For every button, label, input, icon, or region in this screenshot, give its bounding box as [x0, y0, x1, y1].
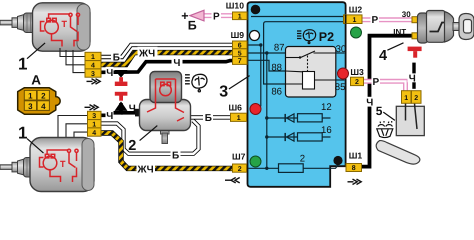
harness arrow M2: [85, 105, 99, 110]
switch 5 pin 1: [402, 91, 412, 104]
label P on pink wire to ignition: [371, 15, 380, 26]
svg-text:2: 2: [41, 92, 46, 101]
svg-text:Ш7: Ш7: [232, 151, 246, 161]
svg-text:Ч: Ч: [106, 111, 113, 122]
svg-text:Р2: Р2: [319, 30, 334, 44]
label P on pink wire to switch5: [372, 77, 381, 88]
motor M1 red schematic: [41, 13, 80, 46]
socket marker white Sh9: [250, 31, 260, 41]
wire vertical to diodes and fuse row: [266, 53, 268, 168]
red connector pair left: [115, 77, 128, 101]
wire white B motor2 pin1 to pump lower: [101, 121, 199, 154]
stalk lever of switch 5: [376, 141, 420, 165]
svg-text:ЖЧ: ЖЧ: [137, 164, 154, 175]
motor M1 top: body: [33, 3, 91, 51]
svg-text:Ч: Ч: [129, 104, 136, 115]
svg-text:12: 12: [321, 102, 332, 113]
label Ch on top black wire: [172, 56, 183, 69]
wire ZhCh striped top run motor1 pin4 to Sh9-5: [101, 53, 233, 65]
relay contact: [286, 57, 301, 59]
svg-text:30: 30: [402, 10, 411, 19]
pin M1-3: [85, 69, 101, 78]
mounting block 3 body: [248, 2, 346, 187]
wire Ch black top run motor1 pin3 to Sh9-7: [101, 61, 233, 73]
pump terminal lug: [135, 109, 140, 117]
svg-text:4: 4: [92, 130, 96, 137]
pin Sh6-1: [231, 113, 247, 122]
svg-text:Ш6: Ш6: [229, 102, 243, 112]
junction wedge upper: [115, 70, 128, 78]
harness arrow Sh1: [348, 179, 362, 184]
svg-text:4: 4: [41, 102, 46, 111]
pin M1-4: [85, 61, 101, 70]
pin M2-4: [88, 128, 102, 137]
svg-text:85: 85: [335, 82, 346, 93]
svg-text:Ч: Ч: [106, 68, 113, 79]
diode branch 16: [265, 135, 268, 138]
svg-text:5: 5: [376, 104, 383, 118]
red T connector ignition: [408, 47, 422, 58]
svg-text:3: 3: [91, 71, 95, 78]
motor M2 bottom: lead wires to connector: [58, 116, 88, 144]
label ZhCh on top striped wire: [138, 47, 158, 60]
svg-text:Б: Б: [113, 52, 120, 63]
ignition switch 4: terminal 30: [412, 17, 419, 23]
svg-text:Ш1: Ш1: [349, 151, 363, 161]
label B on lower pump wire: [171, 150, 181, 162]
diode branch 12: [265, 116, 268, 119]
plus-12V arrow symbol: [190, 10, 204, 21]
wire Ch split left to motor2 pin3: [101, 103, 121, 115]
wire pink P Sh2-1 to ignition 30: [362, 17, 415, 22]
svg-text:1: 1: [238, 13, 242, 20]
washer icon: [377, 121, 393, 138]
svg-text:1: 1: [353, 17, 357, 24]
pin Sh1-8: [346, 164, 362, 173]
svg-text:Б: Б: [205, 113, 212, 124]
socket marker red Sh3: [338, 68, 349, 79]
wire pink P arrow to Sh10-1: [203, 13, 233, 18]
wire white B top run motor1 to Sh9-6: [101, 45, 233, 57]
pump area icon wiper-washer: [185, 74, 207, 92]
diode D12: [287, 114, 295, 122]
svg-text:T: T: [60, 159, 66, 169]
svg-text:2: 2: [414, 95, 418, 102]
socket marker green Sh7: [250, 156, 261, 167]
svg-text:8: 8: [352, 165, 356, 172]
washer pump 2: nozzle: [161, 127, 170, 134]
svg-text:Б: Б: [172, 151, 179, 162]
node rail +12 from Sh10: [251, 16, 345, 18]
motor M2 bottom: body: [30, 138, 94, 192]
socket marker green Sh2 (outside): [351, 27, 362, 38]
svg-text:Ш3: Ш3: [350, 67, 364, 77]
switch 5 pin 2: [412, 91, 422, 104]
svg-text:1: 1: [18, 55, 27, 74]
svg-text:2: 2: [355, 79, 359, 86]
pin Sh9-5: [233, 49, 248, 58]
svg-text:ЖЧ: ЖЧ: [138, 48, 155, 59]
label ZhCh on bottom striped wire: [137, 163, 156, 175]
washer pump 2: body: [140, 100, 191, 131]
svg-text:3: 3: [219, 83, 228, 100]
label Ch at motor2 pin3: [106, 110, 114, 122]
svg-text:2: 2: [300, 154, 305, 165]
switch 5 body: [396, 106, 424, 135]
wire 88 from Sh9-7: [249, 60, 286, 71]
wire white B pump to Sh6-1: [188, 115, 231, 119]
label 1 (motor top) with leader: [27, 43, 45, 59]
socket marker red Sh6: [250, 104, 261, 115]
svg-text:А: А: [31, 72, 41, 87]
svg-text:1: 1: [404, 95, 408, 102]
pin Sh3-2: [351, 77, 364, 86]
pump red schematic: [147, 79, 184, 121]
svg-text:1: 1: [28, 92, 33, 101]
ignition key: [453, 23, 462, 31]
svg-text:2: 2: [238, 166, 242, 173]
label Ch on dashed wire: [408, 73, 417, 84]
svg-text:86: 86: [271, 87, 282, 98]
wire B inside to Sh6 red circle: [249, 45, 261, 109]
label B on top white wire: [111, 52, 121, 63]
harness arrow M1: [87, 79, 101, 84]
wire black INT to Sh1-8: [361, 36, 413, 167]
svg-text:Ш9: Ш9: [231, 30, 245, 40]
wire pink P Sh3-2 to switch5 pin1: [364, 81, 406, 92]
motor M2 red schematic: [40, 149, 79, 182]
pin Sh7-2: [233, 164, 247, 173]
svg-text:88: 88: [271, 63, 282, 74]
svg-text:87: 87: [274, 42, 285, 53]
wire black Ch dashed T to switch5 pin2: [412, 63, 415, 89]
pin M2-3: [88, 111, 102, 120]
fuse F16: [298, 133, 323, 141]
svg-text:Ч: Ч: [366, 97, 373, 108]
label Ch left of junction: [106, 67, 114, 79]
svg-text:Ш10: Ш10: [226, 1, 244, 11]
svg-text:30: 30: [336, 44, 347, 55]
motor M2 bottom: shaft: [0, 158, 35, 178]
wire ZhCh striped bottom motor2 pin4 to Sh7-2: [101, 133, 233, 168]
fuse F12: [298, 114, 323, 122]
svg-text:INT: INT: [393, 27, 406, 36]
socket marker black Sh10: [251, 5, 261, 15]
svg-text:3: 3: [28, 102, 33, 111]
motor M1 lead wires to connector: [60, 48, 85, 73]
ignition switch 4: body: [418, 13, 429, 43]
ignition switch 4: terminal INT: [412, 33, 419, 39]
label P on pink wire top: [212, 11, 222, 22]
pin Sh9-6: [233, 41, 248, 50]
pin M2-1: [88, 120, 102, 129]
label 2 (pump) with leader: [140, 126, 158, 141]
label 1 (motor bottom) with leader: [27, 139, 44, 154]
node rail to relay 86: [264, 22, 345, 84]
relay coil: [303, 72, 315, 90]
svg-text:4: 4: [379, 48, 387, 64]
svg-text:Р: Р: [373, 77, 380, 88]
junction wedge lower: [115, 101, 128, 111]
wire Ch split right to pump2: [121, 111, 137, 115]
label 3 (block) with leader: [229, 76, 250, 89]
svg-text:Ч: Ч: [409, 73, 416, 84]
svg-text:Ч: Ч: [173, 58, 180, 69]
washer pump 2: cap: [150, 72, 182, 103]
svg-text:Р: Р: [213, 11, 220, 22]
pin Sh9-7: [233, 57, 248, 66]
label B on pump wire to Sh6: [203, 112, 213, 124]
pin Sh10-1: [233, 12, 248, 20]
svg-text:Ш2: Ш2: [349, 4, 363, 14]
svg-text:T: T: [62, 19, 68, 29]
svg-text:1: 1: [237, 115, 241, 122]
svg-text:Б: Б: [188, 19, 197, 33]
svg-text:7: 7: [238, 58, 242, 65]
label 4 (ignition) with leader: [387, 43, 403, 50]
svg-text:1: 1: [18, 124, 27, 143]
label 5 (switch) with leader: [383, 112, 395, 120]
diode D16: [287, 133, 295, 141]
connector A: [18, 88, 61, 115]
fuse F2: [279, 164, 304, 173]
label Ch on INT wire: [365, 97, 375, 109]
fuse row wire from Sh7 green circle to black circle: [249, 165, 339, 168]
wire 87 from Sh9-5: [249, 52, 286, 54]
svg-text:2: 2: [128, 138, 136, 154]
harness arrow Sh7: [225, 178, 240, 183]
svg-text:16: 16: [321, 125, 332, 136]
pin M1-1: [85, 52, 101, 61]
socket marker black Sh1: [333, 156, 342, 165]
wire relay 85 to edge: [336, 79, 345, 81]
svg-text:Р: Р: [372, 15, 379, 26]
pin Sh2-1: [344, 15, 363, 24]
relay icon wiper-washer: [297, 30, 316, 44]
motor M1 top: shaft: [0, 13, 35, 33]
wire relay 30 to edge: [336, 52, 345, 54]
relay U-P2 box: [286, 47, 336, 98]
